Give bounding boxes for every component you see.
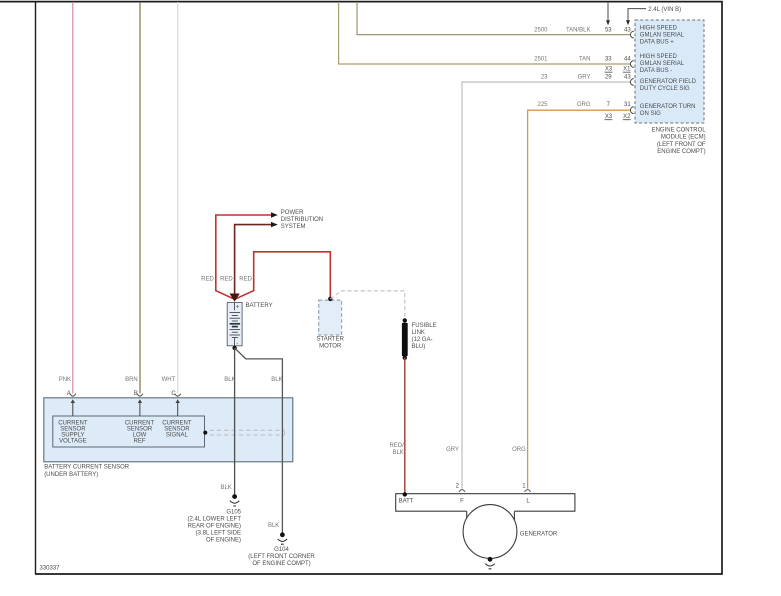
svg-text:RED: RED [220,277,233,283]
svg-text:MOTOR: MOTOR [319,343,342,349]
svg-text:PNK: PNK [59,377,71,383]
label STARTER MOTOR [316,337,344,350]
internal arrow A [71,399,75,416]
connector id X3 X2 [605,114,632,120]
svg-text:DATA BUS +: DATA BUS + [640,39,674,45]
svg-text:2500: 2500 [534,28,548,34]
connector terminal A [70,394,76,397]
svg-text:BATT: BATT [399,498,414,504]
svg-text:OF ENGINE): OF ENGINE) [206,538,241,544]
svg-text:330337: 330337 [40,566,61,572]
label CURRENT SENSOR SUPPLY VOLTAGE [58,420,88,444]
svg-text:ENGINE CONTROL: ENGINE CONTROL [652,127,707,133]
svg-text:SUPPLY: SUPPLY [61,432,84,438]
svg-text:OF ENGINE COMPT): OF ENGINE COMPT) [252,561,310,567]
svg-text:GENERATOR FIELD: GENERATOR FIELD [640,79,697,85]
svg-text:ORG: ORG [512,447,526,453]
connector arc ECM row2 [630,61,633,68]
wire BLK battery to G104 [235,348,283,533]
svg-text:STARTER: STARTER [316,337,344,343]
connector arc ECM row3 [630,79,633,86]
svg-text:43: 43 [624,75,631,81]
battery current sensor box [44,398,293,462]
ECM pin label GENERATOR FIELD DUTY CYCLE SIG [640,79,697,92]
wire RED/BLK fusible link to generator BATT [404,358,406,494]
label BATTERY CURRENT SENSOR (UNDER BATTERY) [44,464,130,478]
label CURRENT SENSOR SIGNAL [162,420,192,438]
junction starter motor terminal [328,297,332,301]
svg-text:REF: REF [134,439,146,445]
svg-text:2.4L (VIN B): 2.4L (VIN B) [648,7,681,13]
svg-text:TAN/BLK: TAN/BLK [566,28,591,34]
arrow to power distribution system 1 [271,212,278,217]
svg-text:RED: RED [239,277,252,283]
svg-text:B: B [134,391,138,397]
svg-text:G105: G105 [226,510,241,516]
starter motor M1 [319,300,342,335]
wire 225 ORG generator turn on sig [528,110,631,488]
ECM pin label HIGH SPEED GMLAN SERIAL DATA BUS - [640,54,685,74]
svg-text:WHT: WHT [162,377,176,383]
svg-text:(LEFT FRONT OF: (LEFT FRONT OF [657,142,706,148]
svg-text:BATTERY: BATTERY [246,303,273,309]
wire 23 GRY generator field duty cycle [462,82,630,489]
label G104 location [248,547,315,567]
svg-text:33: 33 [605,57,612,63]
ECM module U1 box [635,20,704,123]
svg-text:TAN: TAN [579,57,591,63]
svg-text:POWER: POWER [281,210,304,216]
wire WHT signal [177,2,179,394]
svg-text:225: 225 [537,102,548,108]
svg-text:(2.4L LOWER LEFT: (2.4L LOWER LEFT [188,517,242,523]
ECM pin label GENERATOR TURN ON SIG [640,104,696,117]
svg-text:BLU): BLU) [412,344,426,350]
svg-text:C: C [171,391,176,397]
svg-text:2501: 2501 [534,57,548,63]
svg-text:SYSTEM: SYSTEM [281,224,306,230]
wire RED dark to power distribution (middle) [235,225,272,300]
svg-text:A: A [67,391,71,397]
svg-text:(3.8L LEFT SIDE: (3.8L LEFT SIDE [196,531,241,537]
svg-text:LOW: LOW [133,432,147,438]
ground generator case [485,557,494,569]
svg-text:FUSIBLE: FUSIBLE [412,323,437,329]
wire 2501 TAN to ECM pin 33/44 [339,2,631,64]
svg-text:DISTRIBUTION: DISTRIBUTION [281,217,323,223]
svg-text:BLK: BLK [224,377,235,383]
label POWER DISTRIBUTION SYSTEM [281,210,323,230]
dashed sensor signal pair [210,429,285,436]
svg-text:23: 23 [541,75,548,81]
svg-text:REAR OF ENGINE): REAR OF ENGINE) [188,524,241,530]
svg-text:BLK: BLK [268,523,279,529]
connector id X3 X1 [605,67,632,73]
ground G105 [230,494,239,506]
arrow to power distribution system 2 [271,222,278,227]
svg-text:+: + [236,305,240,311]
connector terminal B [137,394,143,397]
svg-text:-: - [236,341,238,347]
svg-text:CURRENT: CURRENT [58,420,88,426]
ground G104 [278,532,287,544]
label CURRENT SENSOR LOW REF [125,420,155,444]
connector arc ECM pin 43 row1 [630,31,633,38]
label RED/ BLK [389,443,404,456]
svg-text:GRY: GRY [578,75,591,81]
svg-text:GRY: GRY [446,447,459,453]
svg-text:GENERATOR TURN: GENERATOR TURN [640,104,696,110]
connector arc F [459,490,465,492]
svg-text:BATTERY CURRENT SENSOR: BATTERY CURRENT SENSOR [44,464,130,470]
svg-text:29: 29 [605,75,612,81]
label G105 location [188,510,242,544]
svg-text:GMLAN SERIAL: GMLAN SERIAL [640,32,685,38]
svg-text:53: 53 [605,28,612,34]
svg-text:BLK: BLK [271,377,282,383]
sensor inner function box [53,416,205,447]
battery BAT1 [227,303,242,348]
svg-text:ENGINE COMPT): ENGINE COMPT) [657,149,705,155]
svg-text:DATA BUS -: DATA BUS - [640,68,672,74]
internal arrow B [138,399,142,416]
svg-text:HIGH SPEED: HIGH SPEED [640,54,678,60]
svg-text:CURRENT: CURRENT [162,420,192,426]
internal arrow C [176,399,180,416]
svg-text:CURRENT: CURRENT [125,420,155,426]
junction battery negative [232,346,236,350]
svg-text:DUTY CYCLE SIG: DUTY CYCLE SIG [640,86,690,92]
ECM name label [652,127,707,155]
svg-text:(LEFT FRONT CORNER: (LEFT FRONT CORNER [248,554,315,560]
svg-text:GENERATOR: GENERATOR [520,531,558,537]
svg-text:VOLTAGE: VOLTAGE [59,439,86,445]
svg-text:44: 44 [624,57,631,63]
svg-text:MODULE (ECM): MODULE (ECM) [661,135,706,141]
wire 2500 TAN/BLK to ECM pin 53/43 [357,2,630,35]
junction sensor signal node [203,431,207,435]
svg-text:LINK: LINK [412,330,425,336]
label FUSIBLE LINK (12 GA-BLU) [412,323,437,350]
junction BATT terminal [403,492,407,496]
svg-text:BRN: BRN [125,377,138,383]
connector arc ECM row4 [630,107,633,114]
generator terminal box outline with notch [396,494,575,521]
svg-text:HIGH SPEED: HIGH SPEED [640,25,678,31]
svg-text:BLK: BLK [220,485,231,491]
svg-text:(12 GA-: (12 GA- [412,337,433,343]
svg-text:GMLAN SERIAL: GMLAN SERIAL [640,61,685,67]
generator body circle [463,505,517,559]
svg-text:G104: G104 [274,547,289,553]
wire BRN low ref [139,2,141,394]
generator GEN1 terminal box [396,494,575,512]
svg-text:SIGNAL: SIGNAL [166,432,189,438]
junction arrow into battery + [230,294,240,302]
svg-text:43: 43 [624,28,631,34]
svg-text:F: F [460,498,464,504]
svg-text:(UNDER BATTERY): (UNDER BATTERY) [44,472,98,478]
svg-text:BLK: BLK [392,450,403,456]
svg-text:31: 31 [624,102,631,108]
wire dashed starter to fusible link [330,291,405,319]
wire BLK battery to G105 [234,348,236,495]
svg-text:ON SIG: ON SIG [640,111,661,117]
wire PNK supply voltage [72,2,74,394]
wire RED battery to starter motor [235,252,331,299]
svg-text:RED/: RED/ [389,443,404,449]
fusible link FL1 (12 GA BLU) [402,318,408,360]
svg-text:ORG: ORG [577,102,591,108]
connector arc L [525,490,531,492]
ECM pin label HIGH SPEED GMLAN SERIAL DATA BUS + [640,25,685,45]
connector terminal C [175,394,181,397]
note 2.4L (VIN B) with arrows to pins 53 and 43 [606,2,681,25]
svg-text:RED: RED [201,277,214,283]
wire RED to power distribution (left) [216,215,272,299]
